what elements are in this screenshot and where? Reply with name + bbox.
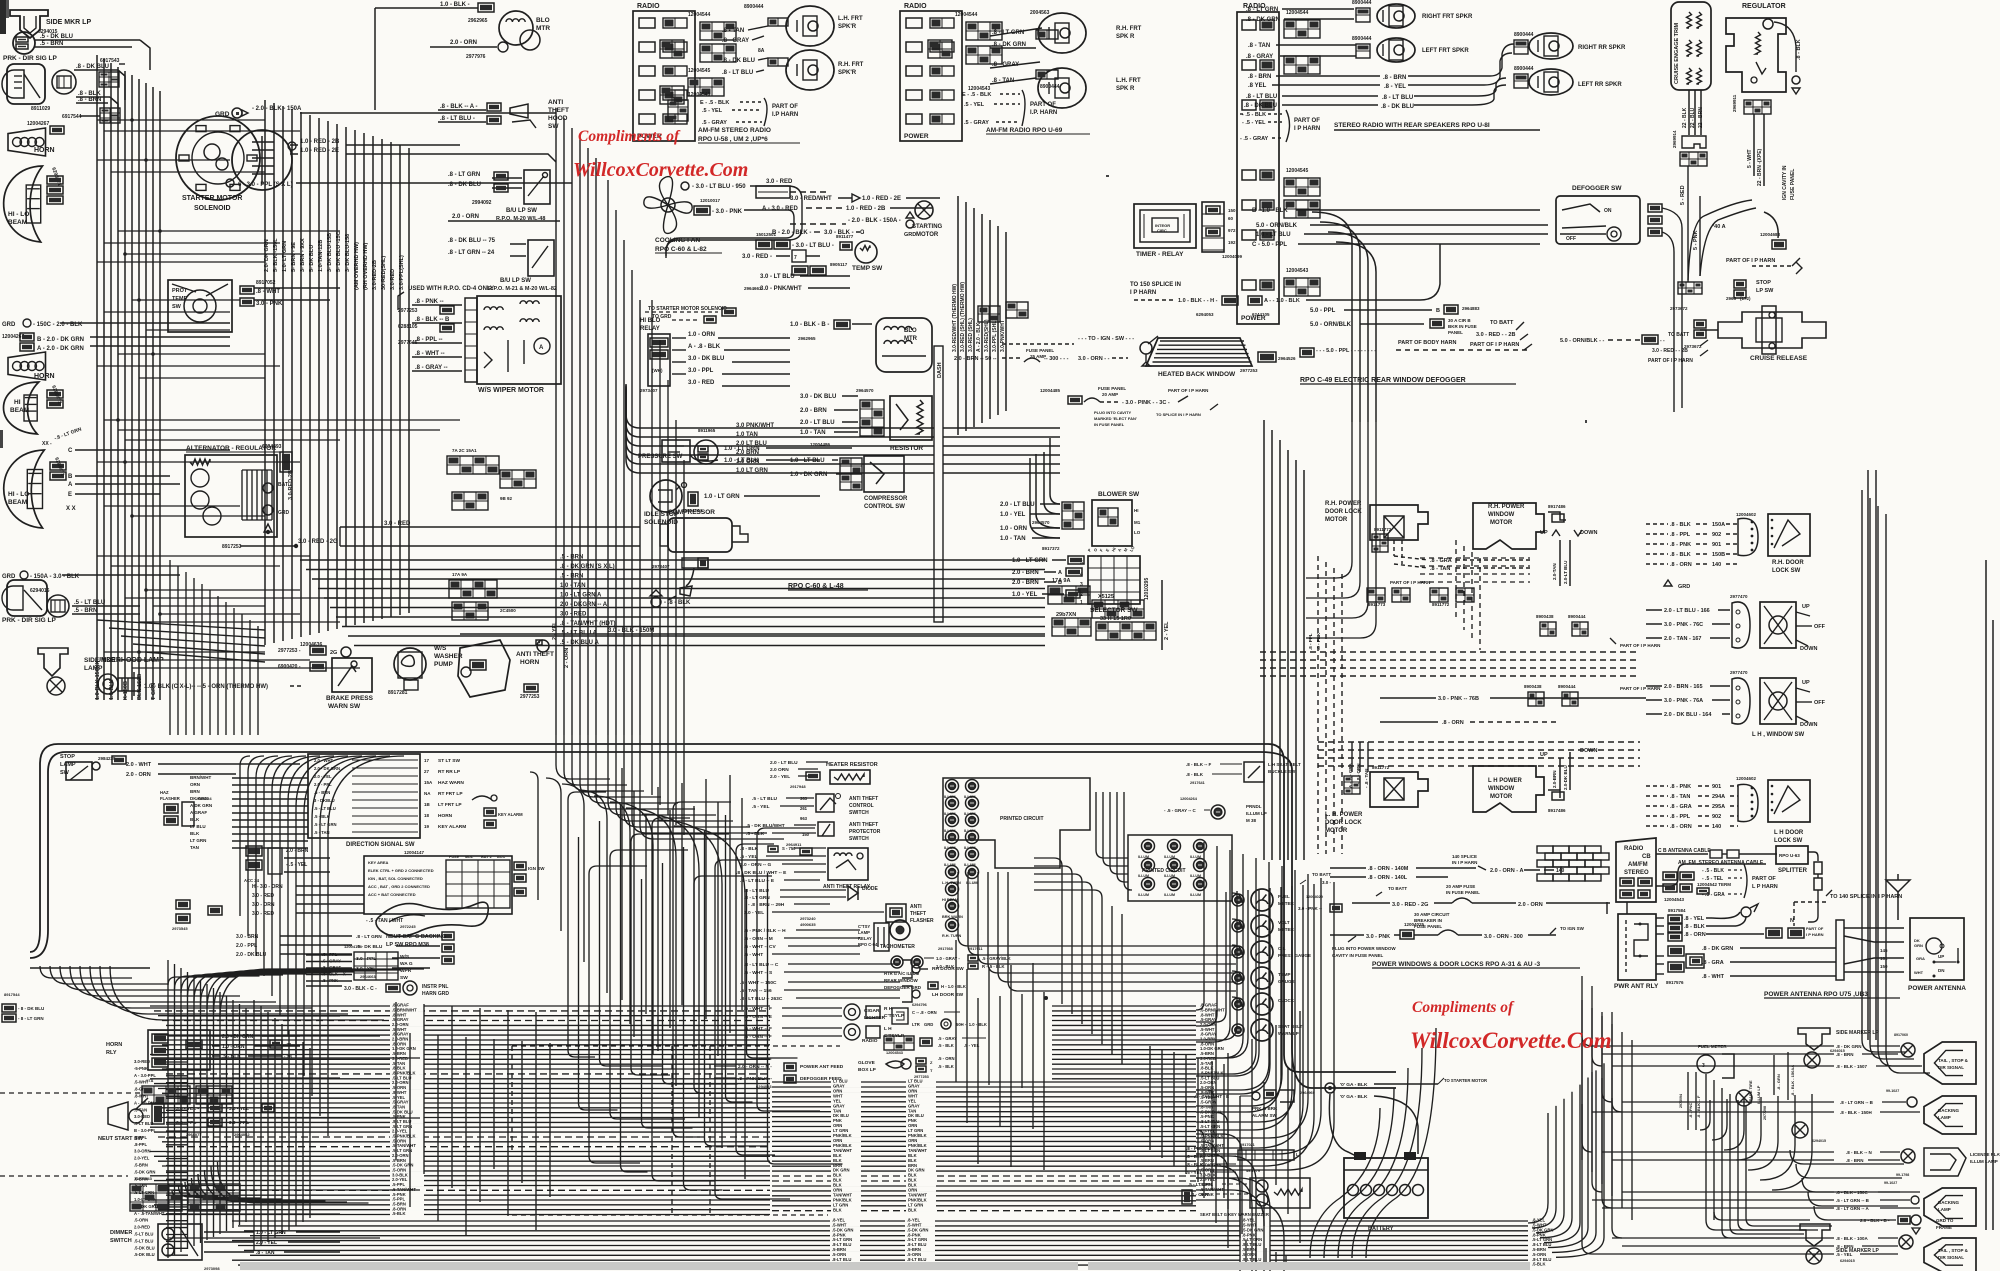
svg-text:LP SW RPO M38: LP SW RPO M38 bbox=[386, 942, 429, 948]
svg-text:2964077: 2964077 bbox=[186, 1132, 202, 1137]
svg-text:.5 - TAN: .5 - TAN bbox=[314, 830, 330, 835]
svg-text:W/S: W/S bbox=[400, 954, 410, 960]
svg-text:PLUG INTO CAVITY: PLUG INTO CAVITY bbox=[1094, 410, 1132, 415]
svg-text:2964062: 2964062 bbox=[234, 1132, 250, 1137]
solenoid wire 3.0-PPL bbox=[226, 179, 234, 187]
svg-text:.5 - WHT: .5 - WHT bbox=[744, 952, 763, 958]
svg-text:REGULATOR: REGULATOR bbox=[1742, 3, 1786, 10]
printed circuit panel 1 bbox=[943, 778, 1090, 868]
svg-text:99-1798: 99-1798 bbox=[1896, 1173, 1909, 1177]
svg-text:.8 - PNK: .8 - PNK bbox=[1670, 784, 1691, 790]
svg-text:27: 27 bbox=[424, 769, 430, 774]
svg-text:B - 2.0 - DK GRN: B - 2.0 - DK GRN bbox=[37, 337, 84, 343]
svg-text:12004267: 12004267 bbox=[2, 334, 24, 340]
svg-text:IN I P HARN: IN I P HARN bbox=[1452, 860, 1477, 865]
svg-text:HAZ: HAZ bbox=[160, 790, 169, 795]
svg-text:6294796: 6294796 bbox=[912, 1003, 927, 1007]
svg-text:.8 - DK BLU -- 75: .8 - DK BLU -- 75 bbox=[448, 238, 496, 244]
svg-text:.8 - LT BLU: .8 - LT BLU bbox=[722, 70, 753, 76]
svg-text:.5 - LT BLU: .5 - LT BLU bbox=[314, 806, 336, 811]
svg-text:CRUISE RELEASE: CRUISE RELEASE bbox=[1750, 355, 1808, 362]
svg-text:B - 2.0 - BLK -: B - 2.0 - BLK - bbox=[772, 230, 811, 236]
svg-text:WINDOW: WINDOW bbox=[1488, 512, 1515, 518]
svg-text:DIRECTION SIGNAL SW: DIRECTION SIGNAL SW bbox=[346, 842, 415, 848]
top-left trunk wires right side bbox=[555, 108, 557, 735]
svg-text:.5 - ORN: .5 - ORN bbox=[938, 1056, 955, 1061]
svg-text:12004545: 12004545 bbox=[688, 68, 710, 74]
svg-text:A GRAF: A GRAF bbox=[190, 810, 207, 815]
tail stop dir signal lamp 2 bbox=[1924, 1238, 1976, 1271]
b/u lp sw 1 bbox=[524, 170, 550, 204]
svg-text:6294053: 6294053 bbox=[756, 1084, 772, 1089]
svg-text:AM ,FM ,STEREO ANTENNA CABLE: AM ,FM ,STEREO ANTENNA CABLE bbox=[1678, 860, 1764, 866]
svg-text:.8 - LT GRN: .8 - LT GRN bbox=[448, 172, 480, 178]
instrument routing loops bbox=[958, 872, 1236, 946]
svg-text:.8 - LT BLU -: .8 - LT BLU - bbox=[440, 116, 475, 122]
svg-text:2.0 - YEL: 2.0 - YEL bbox=[744, 910, 764, 916]
anti theft horn grommet bbox=[537, 640, 549, 652]
svg-text:.5 - LT GRN -- B: .5 - LT GRN -- B bbox=[1836, 1198, 1870, 1203]
svg-text:.5 - LT GRN: .5 - LT GRN bbox=[314, 822, 337, 827]
svg-text:3.0 - RED/WHT: 3.0 - RED/WHT bbox=[790, 196, 832, 202]
mega bundle labels column A bbox=[390, 1003, 424, 1007]
svg-text:3.0 - PNK: 3.0 - PNK bbox=[1366, 934, 1390, 940]
svg-text:STEREO: STEREO bbox=[1624, 870, 1649, 876]
svg-text:.5 - YEL: .5 - YEL bbox=[702, 108, 723, 114]
svg-text:2917911: 2917911 bbox=[968, 947, 983, 951]
svg-text:.8 - PNK: .8 - PNK bbox=[1316, 632, 1321, 650]
svg-text:8905117: 8905117 bbox=[830, 262, 848, 267]
svg-text:5 - RED: 5 - RED bbox=[1680, 185, 1686, 205]
svg-text:'0' GA - BLK: '0' GA - BLK bbox=[1340, 1082, 1368, 1088]
ant connector tags left bbox=[1668, 946, 1684, 956]
svg-text:1.0 - RED - 2E: 1.0 - RED - 2E bbox=[300, 148, 339, 154]
svg-text:L.H. FRT: L.H. FRT bbox=[1116, 78, 1141, 84]
trunk continuation into lower block bbox=[556, 735, 610, 779]
svg-text:TEMP SW: TEMP SW bbox=[852, 265, 883, 272]
svg-text:2973240: 2973240 bbox=[800, 916, 816, 921]
svg-text:.5 - GRAY/BLK: .5 - GRAY/BLK bbox=[982, 956, 1011, 961]
svg-text:GLOVE: GLOVE bbox=[858, 1060, 876, 1066]
svg-text:R.H. FRT: R.H. FRT bbox=[838, 62, 864, 68]
svg-text:1.0 - ORN: 1.0 - ORN bbox=[688, 332, 715, 338]
scan speck 2 bbox=[1106, 175, 1109, 177]
svg-text:LH DOOR SW: LH DOOR SW bbox=[932, 992, 964, 998]
svg-text:SEAT BELT G KEY WARN BUZZER: SEAT BELT G KEY WARN BUZZER bbox=[1200, 1212, 1269, 1217]
svg-text:3.0 - RED: 3.0 - RED bbox=[766, 179, 793, 185]
svg-text:.8 - BRN: .8 - BRN bbox=[1836, 1052, 1854, 1057]
svg-text:150: 150 bbox=[1228, 208, 1236, 213]
svg-text:.5 - GRAY: .5 - GRAY bbox=[938, 1036, 957, 1041]
svg-text:A: A bbox=[68, 482, 73, 488]
svg-text:X X: X X bbox=[66, 506, 76, 512]
lh window motor breaker bbox=[1548, 790, 1560, 798]
svg-text:12004543: 12004543 bbox=[1286, 268, 1308, 274]
svg-text:DN: DN bbox=[1938, 968, 1945, 973]
svg-text:2 - YEL: 2 - YEL bbox=[1164, 621, 1170, 640]
svg-text:12010295: 12010295 bbox=[1144, 578, 1150, 600]
svg-text:K-150B: K-150B bbox=[123, 681, 129, 700]
svg-text:COMPRESSOR: COMPRESSOR bbox=[864, 496, 908, 502]
right tangle elbows up bbox=[1196, 842, 1204, 1010]
svg-text:6 - 3.0 - PPL (S X L): 6 - 3.0 - PPL (S X L) bbox=[238, 182, 293, 188]
tags 40 140 bbox=[1766, 928, 1782, 938]
svg-text:.8 - LT BLU: .8 - LT BLU bbox=[1246, 94, 1277, 100]
svg-text:CONTROL: CONTROL bbox=[849, 803, 874, 809]
svg-text:CAVITY IN FUSE PANEL: CAVITY IN FUSE PANEL bbox=[1332, 953, 1384, 958]
hi beam headlamp bbox=[3, 382, 38, 434]
svg-text:50H -- 1.0 - BLK: 50H -- 1.0 - BLK bbox=[956, 1022, 987, 1027]
idle stop solenoid bbox=[650, 480, 682, 512]
svg-text:B: B bbox=[68, 474, 73, 480]
svg-text:UP: UP bbox=[1540, 752, 1548, 758]
svg-text:140: 140 bbox=[1556, 868, 1565, 874]
svg-text:2.0 - DK BLU: 2.0 - DK BLU bbox=[236, 952, 267, 958]
svg-text:.8 - BLK: .8 - BLK bbox=[1670, 522, 1691, 528]
dash divider bbox=[934, 346, 943, 622]
svg-text:.8 - BLK - 100A: .8 - BLK - 100A bbox=[1836, 1236, 1869, 1241]
radio cb riser bbox=[1606, 902, 1608, 914]
svg-text:PART OF I P HARN: PART OF I P HARN bbox=[1648, 358, 1693, 364]
svg-text:2C4500: 2C4500 bbox=[500, 608, 516, 613]
svg-text:.8 - BRN: .8 - BRN bbox=[78, 97, 101, 103]
prot temp sw box bbox=[168, 280, 232, 332]
svg-text:DOWN: DOWN bbox=[1580, 748, 1597, 754]
svg-text:2.0-DK BLU: 2.0-DK BLU bbox=[1563, 765, 1568, 790]
svg-text:9B 92: 9B 92 bbox=[500, 496, 513, 501]
svg-text:WARN SW: WARN SW bbox=[328, 703, 361, 710]
mega bundle right section rows bbox=[1052, 1005, 1196, 1007]
pw mid dashed bundle horizontals bbox=[1420, 557, 1530, 559]
svg-text:.8 - BLK: .8 - BLK bbox=[1796, 39, 1802, 60]
pwr ant rly box bbox=[1618, 914, 1656, 980]
svg-text:HORN: HORN bbox=[520, 659, 539, 666]
hi-lo beam 2 headlamp bbox=[4, 450, 45, 528]
svg-text:.8 - GRA: .8 - GRA bbox=[1670, 804, 1692, 810]
svg-text:3.0 - YEL -: 3.0 - YEL - bbox=[176, 1106, 199, 1112]
svg-text:1.0 - LT GRN: 1.0 - LT GRN bbox=[256, 1230, 286, 1236]
svg-text:IN FUSE PANEL: IN FUSE PANEL bbox=[1094, 422, 1125, 427]
svg-text:SW: SW bbox=[60, 770, 70, 776]
svg-text:3.0-PNK/WHT: 3.0-PNK/WHT bbox=[1000, 320, 1006, 352]
svg-text:NEUT SAF G BACKING: NEUT SAF G BACKING bbox=[386, 934, 447, 940]
svg-text:DEFOGGER GRD: DEFOGGER GRD bbox=[884, 985, 922, 990]
svg-text:STOP: STOP bbox=[1756, 280, 1771, 286]
svg-text:.8 - PPL: .8 - PPL bbox=[1308, 633, 1313, 650]
svg-text:TAIL , STOP &: TAIL , STOP & bbox=[1938, 1248, 1969, 1253]
svg-text:BLO: BLO bbox=[536, 17, 550, 24]
svg-text:.5 - BLK: .5 - BLK bbox=[314, 814, 330, 819]
svg-text:MTR: MTR bbox=[536, 25, 550, 32]
svg-text:3.0 - RED - - 2B: 3.0 - RED - - 2B bbox=[1652, 348, 1688, 354]
svg-text:OFF: OFF bbox=[1566, 236, 1576, 242]
svg-text:.8 - ORN: .8 - ORN bbox=[1670, 824, 1692, 830]
svg-text:PART OF BODY HARN: PART OF BODY HARN bbox=[1398, 340, 1456, 346]
timer relay outer box bbox=[1134, 204, 1196, 248]
svg-text:- 2.0 - BLK - 150A -: - 2.0 - BLK - 150A - bbox=[848, 218, 901, 224]
svg-text:.8 - DK BLU: .8 - DK BLU bbox=[722, 58, 755, 64]
svg-text:HORN: HORN bbox=[438, 813, 453, 819]
svg-text:.8 - BLK: .8 - BLK bbox=[1186, 772, 1204, 777]
svg-text:22 - BRN -(XPE): 22 - BRN -(XPE) bbox=[1757, 148, 1763, 186]
svg-text:3.0 - DK BLU: 3.0 - DK BLU bbox=[688, 356, 724, 362]
trunk elbow top bbox=[460, 112, 556, 114]
svg-text:30-RED(SHL): 30-RED(SHL) bbox=[381, 256, 387, 290]
radio 2 connector 8900444 bbox=[1036, 30, 1058, 39]
svg-text:.8 - BLK - 150H: .8 - BLK - 150H bbox=[1840, 1110, 1872, 1115]
svg-text:.8 - BLK -- N: .8 - BLK -- N bbox=[1846, 1150, 1872, 1155]
svg-text:DIR SIGNAL: DIR SIGNAL bbox=[1938, 1255, 1964, 1260]
svg-text:PWR ANT RLY: PWR ANT RLY bbox=[1614, 983, 1659, 990]
tail riser verticals bbox=[1581, 1000, 1583, 1160]
svg-text:ON: ON bbox=[1604, 208, 1612, 214]
svg-text:SWITCH: SWITCH bbox=[849, 810, 869, 816]
svg-text:STARTER MOTOR: STARTER MOTOR bbox=[182, 195, 242, 202]
svg-text:150: 150 bbox=[802, 832, 810, 837]
svg-text:PRESS GAUGE: PRESS GAUGE bbox=[1278, 953, 1311, 958]
svg-text:2977976: 2977976 bbox=[466, 54, 486, 60]
svg-text:CONTROL SW: CONTROL SW bbox=[864, 504, 905, 510]
svg-text:161: 161 bbox=[1880, 956, 1888, 961]
upper webbing elbows bbox=[240, 756, 250, 916]
svg-text:8900444: 8900444 bbox=[1514, 66, 1534, 72]
svg-text:THEFT: THEFT bbox=[910, 911, 926, 917]
svg-text:.5-BLK: .5-BLK bbox=[392, 1211, 406, 1216]
svg-text:.5 - YEL: .5 - YEL bbox=[752, 804, 770, 810]
svg-text:2973545: 2973545 bbox=[172, 926, 188, 931]
svg-text:PLUG INTO POWER WINDOW: PLUG INTO POWER WINDOW bbox=[1332, 946, 1396, 951]
svg-text:.5 - LT BLU: .5 - LT BLU bbox=[74, 600, 105, 606]
stop lamp switch bbox=[66, 762, 92, 780]
svg-text:TO BATT: TO BATT bbox=[1312, 872, 1331, 877]
tail section left elbows bbox=[1582, 976, 1592, 1046]
brake press warn sw bbox=[332, 658, 372, 692]
svg-text:WA G: WA G bbox=[400, 961, 413, 967]
svg-text:2977253: 2977253 bbox=[520, 694, 540, 700]
svg-text:1.0 - RED - 2E: 1.0 - RED - 2E bbox=[862, 196, 901, 202]
svg-text:RIGHT RR SPKR: RIGHT RR SPKR bbox=[1578, 45, 1626, 51]
radio 2 speaker LH bbox=[1038, 68, 1086, 108]
radio 3 speaker left rr bbox=[1529, 69, 1573, 95]
svg-text:1.0 TAN: 1.0 TAN bbox=[736, 432, 758, 438]
svg-text:2.0 - WHT: 2.0 - WHT bbox=[126, 762, 152, 768]
svg-text:.8 - DK BLU / WHT -- E: .8 - DK BLU / WHT -- E bbox=[736, 870, 787, 876]
svg-text:.8 - LT BLU -- 263C: .8 - LT BLU -- 263C bbox=[740, 996, 783, 1002]
svg-text:.8 - ORN: .8 - ORN bbox=[1442, 720, 1464, 726]
svg-text:HTR G A/C ILLUM: HTR G A/C ILLUM bbox=[884, 971, 920, 976]
printed circuit panel 2 bbox=[1128, 835, 1232, 901]
svg-text:8900444: 8900444 bbox=[744, 4, 764, 10]
svg-text:AM-FM STEREO RADIO: AM-FM STEREO RADIO bbox=[698, 127, 771, 134]
svg-text:RADIO: RADIO bbox=[637, 3, 660, 10]
svg-text:TIMER - RELAY: TIMER - RELAY bbox=[1136, 251, 1184, 258]
svg-text:PART OF I P HARN: PART OF I P HARN bbox=[1470, 342, 1519, 348]
wire bundle A vertical bbox=[96, 55, 98, 700]
svg-text:R.H. DOOR: R.H. DOOR bbox=[1772, 560, 1804, 566]
splitter box bbox=[1776, 846, 1808, 864]
svg-text:8917544: 8917544 bbox=[4, 992, 20, 997]
svg-text:MARKED 'ELECT FAN': MARKED 'ELECT FAN' bbox=[1094, 416, 1137, 421]
prndl illum lp bbox=[1211, 805, 1225, 819]
svg-text:.8 - ORN - 140M: .8 - ORN - 140M bbox=[1368, 866, 1409, 872]
gauge feed loops bbox=[1232, 893, 1242, 903]
svg-text:DOWN: DOWN bbox=[1800, 722, 1817, 728]
svg-text:B - 3.0-PPL: B - 3.0-PPL bbox=[134, 1128, 157, 1133]
svg-text:.8 - TAN: .8 - TAN bbox=[1670, 794, 1690, 800]
svg-text:LEFT RR SPKR: LEFT RR SPKR bbox=[1578, 82, 1622, 88]
svg-text:901: 901 bbox=[1712, 784, 1721, 790]
cruise connector grid bbox=[1680, 152, 1707, 166]
cruise connector 2969914 bbox=[1682, 136, 1706, 148]
svg-text:I.P HARN: I.P HARN bbox=[772, 112, 798, 118]
mega bundle labels column B2 bbox=[906, 1079, 936, 1083]
svg-text:3.0 PNK/WHT: 3.0 PNK/WHT bbox=[736, 423, 774, 429]
svg-text:HI BLO: HI BLO bbox=[640, 318, 661, 324]
svg-text:C'TSY: C'TSY bbox=[858, 924, 870, 929]
left tangle extra horizontals bbox=[168, 1015, 340, 1017]
svg-text:.5 - GRAY: .5 - GRAY bbox=[702, 120, 727, 126]
svg-text:WHT: WHT bbox=[1914, 970, 1924, 975]
svg-text:DIR SIGNAL: DIR SIGNAL bbox=[1938, 1065, 1964, 1070]
svg-text:2.0 - BRN -- 50 --: 2.0 - BRN -- 50 -- bbox=[954, 356, 997, 362]
svg-text:192: 192 bbox=[1228, 240, 1236, 245]
svg-text:1.0 ORN: 1.0 ORN bbox=[736, 459, 759, 465]
svg-text:LAMP: LAMP bbox=[1938, 1207, 1951, 1212]
center dashed horizontals bbox=[512, 1045, 840, 1047]
link left connector block bbox=[449, 580, 497, 598]
top link 1.0-BLK-150 bbox=[375, 7, 478, 9]
svg-text:.8 - DK GRN: .8 - DK GRN bbox=[992, 42, 1026, 48]
volt column verticals bbox=[1061, 866, 1063, 1004]
svg-text:2973098: 2973098 bbox=[204, 1266, 220, 1271]
svg-text:2.0 - PPL: 2.0 - PPL bbox=[236, 943, 257, 949]
connector 6917543 bbox=[99, 72, 119, 87]
svg-text:33 H 15 1R0: 33 H 15 1R0 bbox=[1100, 616, 1131, 622]
svg-text:12004543: 12004543 bbox=[968, 86, 990, 92]
svg-text:PART OF I P HARN: PART OF I P HARN bbox=[1620, 643, 1660, 648]
svg-text:.8 - LT GRN -- B: .8 - LT GRN -- B bbox=[1840, 1100, 1874, 1105]
vertical thermo bundle bbox=[957, 196, 959, 435]
svg-text:.8 - BLK -- F: .8 - BLK -- F bbox=[1186, 762, 1211, 767]
svg-text:FUSE PANEL: FUSE PANEL bbox=[1026, 348, 1054, 353]
svg-text:1.0 - LT BLU: 1.0 - LT BLU bbox=[1256, 232, 1291, 238]
svg-text:2 - YEL: 2 - YEL bbox=[552, 621, 558, 640]
svg-text:8900444: 8900444 bbox=[1352, 0, 1372, 6]
svg-text:3.0 - PNK/WHT: 3.0 - PNK/WHT bbox=[760, 286, 802, 292]
svg-text:.5 - BRN: .5 - BRN bbox=[74, 608, 97, 614]
svg-text:2977470: 2977470 bbox=[1730, 594, 1748, 599]
svg-text:TEMP: TEMP bbox=[1278, 972, 1291, 977]
svg-text:8A: 8A bbox=[758, 48, 765, 54]
svg-text:6294015: 6294015 bbox=[30, 588, 50, 594]
svg-text:2.0 - DK BLU - 164: 2.0 - DK BLU - 164 bbox=[1664, 712, 1712, 718]
svg-text:3.0 - BLK - 150M: 3.0 - BLK - 150M bbox=[608, 628, 654, 634]
scan artifact top-left page edge bbox=[0, 0, 6, 34]
svg-text:DOWN: DOWN bbox=[1800, 646, 1817, 652]
svg-text:.8 - DK BLU: .8 - DK BLU bbox=[1244, 103, 1277, 109]
svg-text:140 SPLICE: 140 SPLICE bbox=[1452, 854, 1477, 859]
wire 3.0-RED top bbox=[756, 186, 790, 198]
cruise release tags bbox=[1694, 320, 1706, 328]
svg-text:.8 - BLK -- A -: .8 - BLK -- A - bbox=[440, 104, 478, 110]
svg-text:2004563: 2004563 bbox=[1030, 10, 1050, 16]
svg-text:REAR WINDOW: REAR WINDOW bbox=[884, 978, 918, 983]
svg-text:RPO C-94: RPO C-94 bbox=[858, 942, 878, 947]
svg-text:.5 - LT BLU: .5 - LT BLU bbox=[752, 796, 777, 802]
svg-text:BRAKE PRESS: BRAKE PRESS bbox=[326, 695, 374, 702]
rotated wires 2.0-BRN 2.0-DK BLU bbox=[1559, 758, 1561, 790]
svg-text:.5 - WHT -- F: .5 - WHT -- F bbox=[744, 1006, 772, 1012]
svg-text:.5-DK BLU: .5-DK BLU bbox=[134, 1252, 155, 1257]
svg-text:2917948: 2917948 bbox=[790, 784, 806, 789]
svg-text:.8 - WHT: .8 - WHT bbox=[1702, 974, 1725, 980]
svg-text:.8 - WHT --: .8 - WHT -- bbox=[415, 351, 445, 357]
svg-text:.5 - BLK: .5 - BLK bbox=[746, 831, 765, 837]
svg-text:ANTI THEFT: ANTI THEFT bbox=[849, 822, 878, 828]
svg-text:PROT: PROT bbox=[172, 288, 188, 294]
svg-text:LICENSE PLATE: LICENSE PLATE bbox=[1970, 1152, 2000, 1157]
svg-text:.5 - ORN -- M: .5 - ORN -- M bbox=[744, 936, 773, 942]
svg-text:5- DK BLU: 5- DK BLU bbox=[309, 245, 315, 272]
cruise wires down bbox=[1688, 90, 1690, 135]
svg-text:19: 19 bbox=[424, 824, 430, 829]
svg-text:VOLT: VOLT bbox=[1278, 920, 1290, 925]
svg-text:6294053: 6294053 bbox=[1196, 312, 1214, 317]
svg-text:.8 - YEL: .8 - YEL bbox=[1384, 84, 1406, 90]
svg-text:MOTOR: MOTOR bbox=[916, 232, 939, 238]
wire .5-BRN bbox=[35, 46, 132, 48]
svg-text:C - 5.0 - PPL: C - 5.0 - PPL bbox=[1252, 242, 1287, 248]
svg-text:L.H. FRT: L.H. FRT bbox=[838, 16, 863, 22]
svg-text:3- DK BLU-158: 3- DK BLU-158 bbox=[345, 234, 351, 272]
gauges column bbox=[1232, 894, 1244, 906]
ac harness bundle to blower bbox=[640, 427, 934, 429]
horn 2 bbox=[8, 352, 46, 380]
svg-text:12010017: 12010017 bbox=[700, 198, 721, 203]
mega bundle labels column B1 bbox=[831, 1079, 861, 1083]
svg-text:LAMP: LAMP bbox=[858, 930, 870, 935]
svg-text:PART OF I P HARN: PART OF I P HARN bbox=[1620, 686, 1660, 691]
svg-text:Compliments of: Compliments of bbox=[1412, 999, 1515, 1016]
svg-text:22 - BLU: 22 - BLU bbox=[1690, 107, 1696, 128]
svg-text:PROTECTOR: PROTECTOR bbox=[849, 829, 881, 835]
pw tall risers from defogger bbox=[1263, 420, 1265, 860]
svg-text:12004264: 12004264 bbox=[1180, 797, 1198, 801]
svg-text:C B ANTENNA CABLE: C B ANTENNA CABLE bbox=[1658, 848, 1711, 854]
defogger sw right tags bbox=[1648, 204, 1662, 212]
rh door lock switch bbox=[1768, 514, 1810, 556]
center dashed verticals bbox=[671, 1046, 673, 1215]
svg-text:2.0 BRN: 2.0 BRN bbox=[736, 450, 759, 456]
svg-text:- .5 - TEL: - .5 - TEL bbox=[1702, 876, 1723, 882]
svg-text:1.0 - LT GRN: 1.0 - LT GRN bbox=[704, 494, 740, 500]
svg-text:3.0 - BRN: 3.0 - BRN bbox=[236, 934, 259, 940]
rotated wires 2.0-TAN 2.0-LT BLU bbox=[1559, 540, 1561, 586]
svg-text:2.0-TAN: 2.0-TAN bbox=[1552, 563, 1557, 580]
center connector grids 17A 9A bbox=[1048, 586, 1090, 604]
svg-text:2.0 LT BLU: 2.0 LT BLU bbox=[736, 441, 767, 447]
svg-text:.5 - DK BLU: .5 - DK BLU bbox=[40, 34, 73, 40]
radio cb tags bbox=[1620, 878, 1634, 886]
svg-text:3.0 - PNK - 76C: 3.0 - PNK - 76C bbox=[1664, 622, 1703, 628]
svg-text:LAMP: LAMP bbox=[60, 762, 76, 768]
svg-text:3.0 - PPL: 3.0 - PPL bbox=[176, 1120, 196, 1126]
svg-text:2964526: 2964526 bbox=[1278, 356, 1296, 361]
svg-text:A: A bbox=[539, 345, 544, 351]
svg-text:BACKING: BACKING bbox=[1938, 1200, 1959, 1205]
svg-text:3.0 - PNK --: 3.0 - PNK -- bbox=[1298, 906, 1323, 911]
svg-text:A: A bbox=[1058, 570, 1062, 576]
